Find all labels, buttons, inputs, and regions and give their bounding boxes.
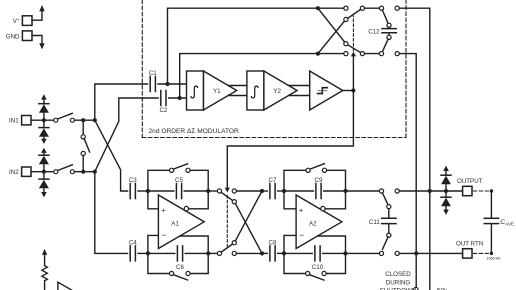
node comparator output: [351, 88, 355, 92]
wire A2 out top with inversion bubble: [321, 206, 325, 210]
wire A2 -input: [284, 235, 296, 253]
svg-text:+: +: [299, 205, 304, 214]
loop A2 bottom with reset switch: [284, 253, 306, 273]
op-amp A1: [158, 195, 204, 249]
svg-text:A2: A2: [309, 221, 317, 228]
svg-text:C8: C8: [269, 239, 277, 246]
wire IN1 cross down to C3: [95, 120, 128, 191]
wire feedback rail top: [168, 8, 344, 84]
arrow clock down: [225, 188, 230, 193]
svg-text:2nd ORDER ΔΣ MODULATOR: 2nd ORDER ΔΣ MODULATOR: [149, 128, 240, 135]
wire A1 bottom row through C6: [148, 252, 175, 254]
dashed box 2nd order modulator: [142, 0, 406, 138]
loop A1 bottom with reset switch: [148, 253, 170, 273]
capacitor C3: [129, 177, 137, 199]
node A1 out top: [206, 189, 210, 193]
integrator Y2: [247, 71, 297, 110]
svg-text:Y2: Y2: [273, 88, 281, 95]
svg-text:C12: C12: [368, 28, 380, 35]
node rail top X: [316, 6, 320, 10]
svg-text:DURING: DURING: [386, 279, 411, 286]
node IN2-a: [81, 170, 85, 174]
wire comparator output up to switch clock: [352, 56, 354, 91]
wire rail bottom to C12 switch: [365, 53, 380, 55]
integrator Y1: [187, 71, 237, 110]
svg-text:A1: A1: [171, 221, 179, 228]
switch S-IN2: [54, 165, 75, 174]
node IN2-b: [93, 170, 97, 174]
loop A2 top with reset switch: [284, 170, 306, 191]
svg-text:C3: C3: [129, 177, 137, 184]
node C7 in: [260, 189, 264, 193]
node C8 in: [260, 251, 264, 255]
node OUT RTN/C12 column: [414, 251, 418, 255]
svg-text:OUTPUT: OUTPUT: [457, 178, 483, 185]
wire A2 out top to C11 switch: [348, 190, 380, 192]
wire A1 top row through C5: [148, 190, 174, 192]
wire IN1 pad to switch: [31, 119, 54, 121]
svg-text:C6: C6: [176, 264, 184, 271]
capacitor C1: [149, 70, 157, 92]
switch S-top chop: contacts: [344, 6, 348, 10]
wire A2 bottom row through C10: [284, 252, 312, 254]
svg-text:C7: C7: [269, 177, 277, 184]
pad OUT RTN: [456, 240, 483, 258]
node A1 -in: [146, 251, 150, 255]
chop switch A1 out bottom: [210, 241, 260, 256]
pad V+: [13, 16, 32, 26]
svg-text:C9: C9: [315, 177, 323, 184]
switch S-C6 reset: [170, 271, 191, 280]
wire OUTPUT row: [399, 190, 462, 192]
switch S-C11 top: [379, 189, 383, 193]
capacitor C12: [368, 27, 396, 35]
svg-text:IN2: IN2: [9, 169, 19, 176]
pad OUTPUT: [457, 178, 483, 196]
switch S-C9 reset: [306, 164, 327, 173]
switch S-IN1: [54, 113, 75, 122]
node OUTPUT/C12 column: [428, 189, 432, 193]
dashed clock line through chop switches: [226, 196, 228, 247]
svg-text:−: −: [161, 230, 166, 240]
wire A2 top row through C9: [284, 190, 313, 192]
svg-text:1966 BD: 1966 BD: [487, 256, 501, 260]
chop switch A1 out top: [210, 189, 260, 204]
wire IN2 pad to switch: [31, 171, 54, 173]
wire A1 out bottom: [180, 236, 208, 253]
svg-text:−: −: [299, 230, 304, 240]
wire chop cross down: [235, 204, 262, 254]
wire chop cross up: [235, 191, 262, 241]
node OUTPUT diodes: [444, 189, 448, 193]
wire IN2 down to C4: [95, 172, 128, 254]
switch contact OUTPUT row: [395, 189, 399, 193]
svg-text:GND: GND: [6, 33, 20, 40]
capacitor C5: [175, 177, 183, 199]
svg-text:C1: C1: [149, 70, 157, 77]
label CLOSED DURING SHUTDOWN: [380, 271, 416, 290]
wire Y1 to Y2 (differential pair): [229, 85, 247, 87]
capacitor C7: [262, 177, 284, 199]
capacitor C10: [312, 246, 324, 271]
wire V+ to arrow: [32, 11, 42, 20]
switch contact to output bottom: [395, 52, 399, 56]
node A2 -in: [282, 251, 286, 255]
wire IN2 cross up to C2: [95, 98, 158, 172]
switch S-shorting (between IN1 and IN2 rails): [81, 122, 90, 170]
wire switch to junctions IN1: [75, 119, 95, 121]
wire C3 to A1 input node: [138, 190, 148, 192]
capacitor C4: [129, 239, 137, 261]
protection diodes IN2: [39, 148, 49, 198]
switch S-bottom chop: pole and lever: [360, 52, 364, 56]
node A1 +in: [146, 189, 150, 193]
wire bottom rail to OUT RTN column: [399, 54, 416, 254]
pad IN2: [9, 167, 31, 176]
wire Y2 to comparator (differential pair): [289, 85, 310, 87]
arrow up (to V+ rail): [39, 5, 44, 11]
capacitor C6: [176, 246, 184, 271]
wire switch to junctions IN2: [75, 171, 95, 173]
switch contact OUT RTN row: [395, 251, 399, 255]
node C-AVE bottom: [490, 252, 493, 255]
wire C1 to Y1: [158, 83, 187, 85]
node IN1: [42, 118, 46, 122]
node IN2: [42, 170, 46, 174]
capacitor C11: [369, 209, 396, 233]
wire GND to arrow: [32, 36, 42, 44]
wire A2 out bottom: [318, 236, 346, 253]
svg-text:C2: C2: [159, 107, 167, 114]
wire top rail to OUTPUT column: [399, 8, 430, 191]
switch S-C10 reset: [306, 271, 327, 280]
wire comparator output: [343, 90, 354, 92]
node A2 out bottom: [343, 251, 347, 255]
switch S-C12 bottom: [387, 35, 391, 39]
arrow down (to GND): [39, 43, 44, 49]
switch contact to output top: [395, 6, 399, 10]
wire X cross top-to-bottom: [318, 8, 345, 42]
op-amp A2: [296, 195, 342, 249]
svg-text:Y1: Y1: [213, 88, 221, 95]
svg-text:C4: C4: [129, 239, 137, 246]
wire comparator output down to chop switches: [227, 91, 353, 189]
dashed wire OUTPUT to C-AVE: [474, 190, 492, 192]
wire X cross bottom-to-top: [318, 21, 344, 53]
node IN1-a: [81, 118, 85, 122]
wire A1 -input: [148, 235, 159, 253]
svg-text:C10: C10: [312, 264, 324, 271]
dashed clock line through C12 switches: [352, 16, 354, 51]
capacitor C9: [315, 177, 323, 199]
resistor to V+ (partial, bottom left): [42, 249, 47, 290]
wire C12 column continues down (to 50k): [429, 191, 431, 290]
node C-AVE top: [490, 189, 493, 192]
svg-text:IN1: IN1: [9, 118, 19, 125]
switch S-C12 top: [379, 6, 383, 10]
capacitor C2: [159, 91, 167, 115]
capacitor C-AVE (external): [484, 191, 514, 253]
svg-text:CLOSED: CLOSED: [385, 271, 411, 278]
wire A1 out top with inversion bubble: [184, 206, 188, 210]
protection diodes IN1: [39, 94, 49, 144]
node rail bottom X: [316, 52, 320, 56]
wire OUT RTN row: [399, 252, 462, 254]
node IN1-b: [93, 118, 97, 122]
node A2 +in: [282, 189, 286, 193]
node C1/feedback: [165, 82, 169, 86]
wire C4 to A1 -in node: [138, 252, 148, 254]
op-amp A3 (partial, bottom edge): [58, 282, 72, 290]
node C2/feedback: [178, 96, 182, 100]
svg-text:C5: C5: [175, 177, 183, 184]
wire rail top to C12 switch: [365, 7, 380, 9]
pad GND: [6, 31, 32, 41]
switch S-C5 reset: [170, 164, 191, 173]
wire IN1 up to C1: [95, 84, 148, 120]
wire A1 +input: [148, 191, 159, 209]
loop A1 top with reset switch: [148, 170, 170, 191]
svg-text:OUT RTN: OUT RTN: [456, 240, 483, 247]
pad IN1: [9, 116, 31, 125]
node A2 out top: [343, 189, 347, 193]
protection diodes OUTPUT: [441, 166, 451, 215]
dashed wire OUT RTN to C-AVE: [474, 252, 492, 254]
capacitor C8: [262, 239, 284, 261]
switch S-top chop: pole and lever: [360, 6, 364, 10]
svg-text:C11: C11: [369, 219, 380, 226]
wire A2 out bottom to C11 switch: [348, 252, 380, 254]
wire A2 +input: [284, 191, 296, 209]
svg-text:+: +: [161, 205, 166, 214]
comparator with hysteresis: [310, 71, 343, 110]
wire C2 to Y1: [169, 97, 187, 99]
switch S-shutdown (closed during shutdown): [414, 253, 418, 290]
switch S-C11 bottom: [387, 233, 391, 237]
node A1 out bottom: [206, 251, 210, 255]
switch S-bottom chop: contacts: [344, 52, 348, 56]
arrow clock up: [351, 52, 356, 57]
wire feedback rail bottom: [180, 54, 344, 98]
